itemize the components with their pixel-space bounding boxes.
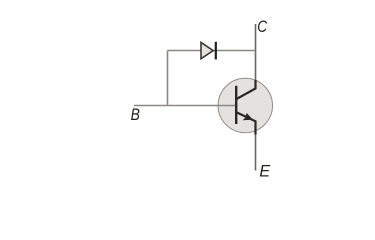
label C — [257, 18, 268, 37]
label B — [131, 106, 140, 125]
svg-text:E: E — [259, 161, 271, 180]
diode D1 (anode left, cathode bar right) — [201, 42, 216, 60]
transistor Q1 body circle — [218, 78, 272, 132]
wire: diode horizontal run, left corner to collector line — [168, 50, 256, 52]
svg-text:C: C — [257, 18, 268, 37]
transistor Q1 emitter arrowhead — [243, 113, 253, 120]
transistor Q1 collector lead — [237, 80, 256, 99]
transistor Q1 base bar — [235, 86, 237, 124]
wire: base horizontal from B label to transistor base bar — [134, 105, 236, 107]
label E — [259, 161, 271, 180]
transistor Q1 emitter lead — [236, 112, 255, 134]
wire: collector vertical from C label down to transistor — [255, 24, 257, 80]
wire: emitter vertical below transistor down to E label — [255, 134, 257, 171]
svg-text:B: B — [131, 106, 140, 125]
wire: left vertical from diode corner down to base wire — [167, 51, 169, 106]
